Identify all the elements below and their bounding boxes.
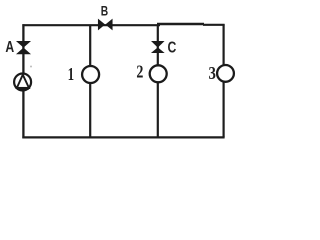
load circle 1 xyxy=(82,66,99,83)
svg-text:1: 1 xyxy=(68,64,75,84)
wire right vertical xyxy=(223,24,225,137)
pump P1 xyxy=(14,74,31,91)
wire bottom line xyxy=(22,136,224,138)
svg-text:C: C xyxy=(168,40,177,57)
wire branch 2 vertical xyxy=(157,25,159,137)
wire top right segment xyxy=(203,24,225,26)
svg-text:2: 2 xyxy=(136,61,143,81)
load circle 2 xyxy=(150,65,167,82)
scan speck xyxy=(30,66,32,68)
svg-text:A: A xyxy=(5,39,14,56)
valve A xyxy=(17,41,30,54)
svg-text:B: B xyxy=(101,3,108,19)
wire top main xyxy=(22,24,160,26)
svg-text:3: 3 xyxy=(209,63,216,83)
wire branch 1 vertical xyxy=(89,25,91,137)
wire left vertical xyxy=(22,24,24,138)
valve C xyxy=(152,41,164,52)
wire top overlap segment xyxy=(157,23,204,26)
load circle 3 xyxy=(217,65,234,82)
valve B xyxy=(98,19,112,29)
